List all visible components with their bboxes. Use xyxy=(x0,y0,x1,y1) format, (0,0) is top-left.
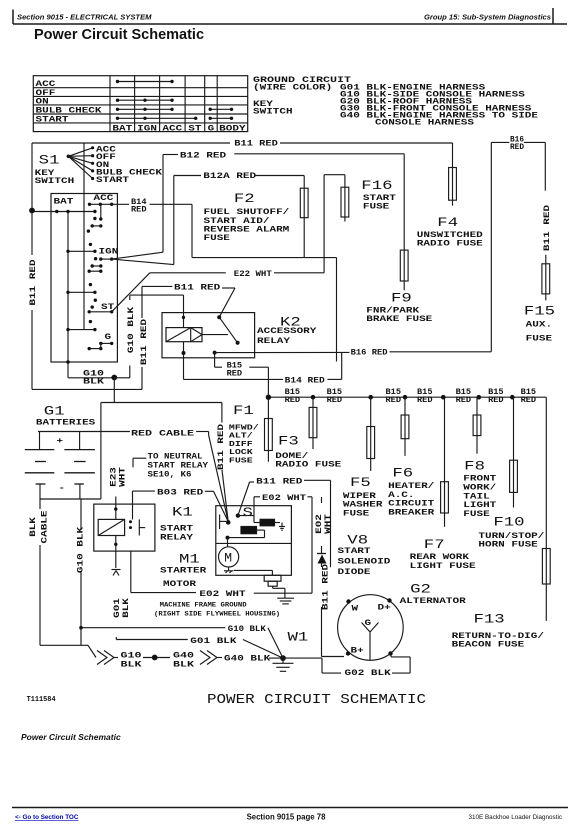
svg-text:AUX.: AUX. xyxy=(526,321,552,330)
starter M1 name xyxy=(160,567,206,589)
diode V8 designator xyxy=(347,533,368,548)
svg-text:SWITCH: SWITCH xyxy=(253,108,293,117)
svg-text:B12 RED: B12 RED xyxy=(180,151,226,160)
label B03 RED xyxy=(157,488,203,497)
wire B15 RED to bus xyxy=(249,367,268,397)
svg-text:DIODE: DIODE xyxy=(338,568,371,577)
drawing number xyxy=(27,696,56,704)
svg-text:BLK: BLK xyxy=(83,378,104,387)
wire F3 feed xyxy=(267,397,269,418)
svg-text:RED: RED xyxy=(456,396,472,405)
svg-text:B11 RED: B11 RED xyxy=(174,283,220,292)
connector below K1 xyxy=(112,570,121,576)
label B14 RED lower xyxy=(285,376,325,385)
label B12 RED xyxy=(180,151,226,160)
svg-text:G01 BLK: G01 BLK xyxy=(190,637,236,646)
svg-text:S: S xyxy=(243,505,254,520)
relay K2 name xyxy=(257,327,317,346)
alternator G2 designator xyxy=(410,582,431,597)
wire E02 diode upper xyxy=(321,497,323,554)
ground circuit legend heading xyxy=(253,76,351,93)
relay K2 coil xyxy=(166,328,202,342)
fuse F9 name xyxy=(366,306,432,324)
wire K2 coil to B14 xyxy=(182,342,186,380)
svg-text:ALT/: ALT/ xyxy=(229,433,253,441)
wire B11 RED top right xyxy=(280,143,453,168)
fuse F3 xyxy=(265,419,273,451)
fuse F16 name xyxy=(363,194,396,212)
wire K1 coil ground xyxy=(114,536,117,569)
key switch position table grid xyxy=(33,76,247,132)
wire B12A RED corner xyxy=(174,176,201,265)
wire motor ground internal xyxy=(234,570,272,575)
label B16 RED xyxy=(351,348,388,357)
wire F10 feed xyxy=(513,397,515,460)
starter terminal bracket xyxy=(220,515,226,530)
svg-text:LOCK: LOCK xyxy=(229,449,254,457)
svg-text:WHT: WHT xyxy=(119,467,128,487)
diode V8 xyxy=(317,554,327,568)
relay K2 designator xyxy=(280,315,301,330)
svg-text:MACHINE FRAME GROUND: MACHINE FRAME GROUND xyxy=(160,602,247,609)
page header rule xyxy=(13,8,567,24)
svg-text:START: START xyxy=(160,525,193,534)
svg-text:BODY: BODY xyxy=(219,124,246,133)
battery plus sign xyxy=(57,437,64,446)
svg-text:B11 RED: B11 RED xyxy=(29,259,38,305)
footer link xyxy=(15,814,79,821)
wire B14 RED lower right xyxy=(328,352,342,379)
footer rule xyxy=(12,807,568,809)
key switch pointer label xyxy=(253,100,293,117)
svg-text:BLK: BLK xyxy=(173,661,194,670)
label G01 BLK riser (vertical) xyxy=(113,598,131,618)
S1 IGN terminal label xyxy=(99,247,119,256)
starter M1 body xyxy=(216,506,292,576)
svg-text:RED CABLE: RED CABLE xyxy=(131,429,194,438)
S1 G terminal label xyxy=(105,333,112,342)
diode V8 name xyxy=(338,547,391,577)
svg-text:RADIO FUSE: RADIO FUSE xyxy=(417,240,483,249)
svg-text:G40: G40 xyxy=(173,652,194,661)
starter S label xyxy=(243,505,254,520)
wire dome fuse feed xyxy=(312,397,314,407)
svg-text:ACC: ACC xyxy=(94,194,114,203)
svg-text:D+: D+ xyxy=(378,604,391,613)
label E02 WHT upper xyxy=(262,494,306,503)
wire G10 BLK frame to W1 xyxy=(268,628,283,658)
wire solenoid to motor xyxy=(226,530,265,540)
wire G10 BLK to K2 coil xyxy=(114,295,183,378)
svg-text:FRONT: FRONT xyxy=(463,475,496,484)
svg-text:RED: RED xyxy=(131,206,147,215)
table ON row contacts xyxy=(116,99,174,102)
svg-text:CABLE: CABLE xyxy=(41,510,50,543)
fuse dome radio xyxy=(309,407,317,437)
svg-text:M1: M1 xyxy=(179,552,200,567)
svg-text:FUSE: FUSE xyxy=(526,335,553,344)
svg-text:Power Circuit Schematic: Power Circuit Schematic xyxy=(34,27,204,43)
wire K1 coil feed xyxy=(114,497,117,520)
wire B03 RED from K1 xyxy=(133,491,155,519)
label G40 BLK connector xyxy=(173,652,194,670)
svg-text:WIPER: WIPER xyxy=(343,492,376,501)
svg-text:WHT: WHT xyxy=(324,514,333,534)
fuse F15 xyxy=(542,264,550,294)
svg-text:RED: RED xyxy=(417,396,433,405)
S1 ACC contact row xyxy=(88,203,114,206)
svg-text:K1: K1 xyxy=(172,505,193,520)
svg-text:E02 WHT: E02 WHT xyxy=(199,590,245,599)
wire B16 RED riser xyxy=(390,142,510,351)
svg-text:START: START xyxy=(36,116,69,125)
label G40 BLK xyxy=(224,655,270,664)
svg-text:CONSOLE HARNESS: CONSOLE HARNESS xyxy=(375,119,474,128)
label B11 RED at K2 xyxy=(174,283,220,292)
svg-text:E02 WHT: E02 WHT xyxy=(262,494,306,503)
wire B15 RED elbow xyxy=(215,353,222,368)
node starter S terminal xyxy=(236,513,240,517)
harness connector right xyxy=(200,651,217,665)
wire RED CABLE to starter xyxy=(196,432,228,522)
fuse F5 xyxy=(367,427,375,459)
solenoid contact block 2 xyxy=(241,526,257,533)
wire F5 feed xyxy=(370,397,372,426)
wire F3 output xyxy=(267,451,269,462)
schematic title xyxy=(207,692,426,708)
svg-text:V8: V8 xyxy=(347,533,368,548)
svg-text:F4: F4 xyxy=(437,215,458,230)
svg-text:RED: RED xyxy=(510,143,524,152)
svg-text:BEACON FUSE: BEACON FUSE xyxy=(452,641,525,650)
wire F5 output xyxy=(370,459,372,471)
key switch S1 designator xyxy=(39,153,60,168)
svg-text:B+: B+ xyxy=(351,647,364,656)
label B15 RED at K2 xyxy=(227,361,243,378)
svg-text:F6: F6 xyxy=(392,466,413,481)
S1 internal feed wire xyxy=(83,143,85,330)
svg-text:G10: G10 xyxy=(121,652,142,661)
fuse F1 designator xyxy=(233,403,254,418)
wire B11 RED top left xyxy=(32,142,230,144)
svg-text:B11 RED: B11 RED xyxy=(322,564,331,610)
svg-text:TO NEUTRAL: TO NEUTRAL xyxy=(148,453,203,462)
svg-text:FUSE: FUSE xyxy=(229,457,253,465)
fuse F6 xyxy=(401,415,409,439)
label RED CABLE xyxy=(131,429,194,438)
wire F6 output xyxy=(404,439,406,456)
S1 position labels xyxy=(96,145,162,185)
svg-text:RED: RED xyxy=(285,396,301,405)
wire F7 output xyxy=(444,513,446,527)
fuse F9 designator xyxy=(391,291,412,306)
fuse F13 name xyxy=(452,632,545,650)
S1 contact chain lower xyxy=(66,291,97,309)
wire B14 RED to K2 xyxy=(150,204,337,361)
fuse F10 designator xyxy=(493,515,524,530)
svg-text:B12A RED: B12A RED xyxy=(203,172,256,181)
fuse F2 designator xyxy=(234,191,255,206)
wire F6 feed xyxy=(404,397,406,415)
svg-text:ON: ON xyxy=(36,98,49,107)
svg-text:<- Go to Section TOC: <- Go to Section TOC xyxy=(15,814,79,821)
svg-text:RADIO FUSE: RADIO FUSE xyxy=(275,461,341,470)
label B11 RED starter xyxy=(256,478,302,487)
fuse F4 name xyxy=(417,231,483,249)
table row labels xyxy=(36,80,102,125)
svg-text:SWITCH: SWITCH xyxy=(35,177,75,186)
footer center xyxy=(247,813,327,822)
header left text xyxy=(17,13,152,22)
svg-text:BATTERIES: BATTERIES xyxy=(36,419,96,428)
fuse F5 name xyxy=(343,492,383,519)
wire F8 feed xyxy=(476,397,478,415)
label B16 RED top xyxy=(510,136,524,152)
svg-text:BULB CHECK: BULB CHECK xyxy=(36,107,102,116)
B15 bus junctions xyxy=(266,395,515,400)
fuse F5 designator xyxy=(350,475,371,490)
S1 IGN to B12 link xyxy=(112,252,163,259)
wire B14 RED lower xyxy=(184,378,284,380)
wire F7 feed xyxy=(444,397,446,482)
battery minus sign xyxy=(59,484,66,493)
svg-text:RELAY: RELAY xyxy=(257,337,290,346)
fuse F15 name xyxy=(526,321,553,344)
motor M symbol xyxy=(219,538,239,567)
svg-text:STARTER: STARTER xyxy=(160,567,206,576)
svg-text:BAT: BAT xyxy=(54,198,74,207)
svg-text:B14 RED: B14 RED xyxy=(285,376,325,385)
wire B11 RED into K2 contact xyxy=(219,288,235,317)
fuse F3 name xyxy=(275,452,341,470)
wire B12 RED corner xyxy=(163,155,178,253)
alternator terminals xyxy=(346,598,393,655)
svg-text:G02 BLK: G02 BLK xyxy=(345,669,391,678)
wire F16 output xyxy=(344,217,346,222)
svg-text:G: G xyxy=(208,124,215,133)
S1 contact chain mid xyxy=(88,257,114,286)
wire G10 BLK from S1 xyxy=(68,362,113,378)
svg-text:BRAKE FUSE: BRAKE FUSE xyxy=(366,315,432,324)
relay K2 body xyxy=(162,313,255,358)
label B11 RED F1 feed (vertical) xyxy=(217,424,226,470)
wire E23 WHT stub xyxy=(133,458,146,467)
svg-text:WORK/: WORK/ xyxy=(463,484,496,493)
svg-text:F9: F9 xyxy=(391,291,412,306)
battery cell plates xyxy=(25,450,95,484)
wire B16 RED to F15 xyxy=(524,142,545,190)
node W1 xyxy=(280,655,286,661)
ground wire color list xyxy=(340,84,538,128)
note to neutral start relay xyxy=(148,453,209,480)
wire G10 BLK battery drop xyxy=(113,378,115,403)
wire F2 output xyxy=(303,218,305,258)
svg-text:B16 RED: B16 RED xyxy=(351,348,388,357)
battery G1 designator xyxy=(44,404,65,419)
svg-text:RED: RED xyxy=(386,396,402,405)
alternator terminal labels xyxy=(351,604,391,656)
svg-text:TURN/STOP/: TURN/STOP/ xyxy=(478,532,544,541)
S1 contact chain bottom xyxy=(66,320,96,331)
svg-text:Section 9015 page 78: Section 9015 page 78 xyxy=(247,813,327,822)
svg-text:T111584: T111584 xyxy=(27,696,56,704)
svg-text:DOME/: DOME/ xyxy=(275,452,308,461)
svg-text:RED: RED xyxy=(488,396,504,405)
motor frame mount xyxy=(224,567,234,573)
starter ground connector xyxy=(264,575,281,586)
wire B11 RED from S terminal xyxy=(238,482,254,516)
node G10 ground junction xyxy=(111,375,117,381)
svg-text:-: - xyxy=(59,484,66,493)
fuse F8 name xyxy=(463,475,496,519)
svg-text:F2: F2 xyxy=(234,191,255,206)
label G10 BLK battery (vertical) xyxy=(77,527,86,573)
svg-text:+: + xyxy=(57,437,64,446)
svg-text:HORN FUSE: HORN FUSE xyxy=(478,541,538,550)
wire G10 BLK battery to ground xyxy=(80,499,82,645)
svg-text:BREAKER: BREAKER xyxy=(388,508,434,517)
svg-text:RED: RED xyxy=(521,396,537,405)
node starter main terminal xyxy=(226,520,231,525)
label B11 RED riser (vertical) xyxy=(140,319,149,365)
B15 RED bus labels xyxy=(285,388,537,405)
S1 ACC terminal label xyxy=(94,194,114,203)
svg-text:Group 15: Sub-System Diagnosti: Group 15: Sub-System Diagnostics xyxy=(424,13,551,22)
fuse F3 designator xyxy=(278,434,299,449)
label E23 WHT (vertical) xyxy=(110,467,128,487)
svg-text:REAR WORK: REAR WORK xyxy=(410,553,470,562)
S1 IGN contact row xyxy=(66,250,96,253)
label G10 BLK frame xyxy=(228,625,266,634)
svg-text:S1: S1 xyxy=(39,153,60,168)
svg-text:G1: G1 xyxy=(44,404,65,419)
svg-text:BLK: BLK xyxy=(122,598,131,618)
svg-text:G40 BLK: G40 BLK xyxy=(224,655,270,664)
fuse F13 designator xyxy=(474,612,505,627)
alternator G2 name xyxy=(400,597,466,606)
S1 BAT terminal label xyxy=(54,198,74,207)
svg-text:G10 BLK: G10 BLK xyxy=(77,527,86,573)
svg-text:LIGHT FUSE: LIGHT FUSE xyxy=(410,562,476,571)
ground symbol W1 xyxy=(273,658,294,671)
alternator G2 circle xyxy=(338,595,404,661)
label BLK CABLE (vertical) xyxy=(29,510,50,543)
svg-text:F1: F1 xyxy=(233,403,254,418)
header right text xyxy=(424,13,551,22)
wire B11 RED to alternator xyxy=(322,607,345,657)
svg-text:MOTOR: MOTOR xyxy=(163,580,196,589)
svg-text:B03 RED: B03 RED xyxy=(157,488,203,497)
svg-text:BLK: BLK xyxy=(121,661,142,670)
fuse F16 designator xyxy=(361,178,392,193)
wire to frame ground xyxy=(273,586,285,598)
solenoid contact block 1 xyxy=(260,519,275,526)
ground W1 designator xyxy=(288,630,309,645)
svg-text:ACC: ACC xyxy=(162,124,182,133)
svg-text:RED: RED xyxy=(227,369,243,378)
relay K2 contact arm xyxy=(217,315,239,345)
svg-text:G01: G01 xyxy=(113,598,122,618)
wire K2 coil feed xyxy=(182,295,185,327)
svg-text:A.C.: A.C. xyxy=(388,491,414,500)
svg-text:E22 WHT: E22 WHT xyxy=(234,270,272,279)
svg-text:IGN: IGN xyxy=(137,124,157,133)
node G10 frame junction xyxy=(79,626,83,630)
label G01 BLK xyxy=(190,637,236,646)
svg-text:F16: F16 xyxy=(361,178,392,193)
svg-text:BAT: BAT xyxy=(112,124,132,133)
svg-text:E02: E02 xyxy=(315,514,324,534)
S1 ST to E22 link xyxy=(112,273,150,312)
wire BLK CABLE to frame ground xyxy=(40,499,96,658)
wire F15 feed xyxy=(545,255,547,264)
fuse F2 name xyxy=(204,208,290,243)
wire F9 output xyxy=(403,281,405,290)
table column labels xyxy=(112,124,245,133)
fuse F10 name xyxy=(478,532,544,550)
svg-text:FUSE: FUSE xyxy=(363,203,390,212)
svg-text:B11 RED: B11 RED xyxy=(234,139,278,148)
wire B03 RED to starter xyxy=(205,491,228,521)
svg-text:START RELAY: START RELAY xyxy=(148,462,209,471)
svg-text:G2: G2 xyxy=(410,582,431,597)
battery positive bus xyxy=(38,432,130,450)
wire E02 WHT lower right xyxy=(254,592,312,594)
svg-text:F3: F3 xyxy=(278,434,299,449)
svg-text:FNR/PARK: FNR/PARK xyxy=(366,306,419,315)
wire battery positive tap xyxy=(101,402,222,404)
fuse F16 xyxy=(341,187,349,217)
svg-text:UNSWITCHED: UNSWITCHED xyxy=(417,231,483,240)
fuse F15 designator xyxy=(524,304,555,319)
svg-text:F13: F13 xyxy=(474,612,505,627)
svg-text:310E Backhoe Loader Diagnostic: 310E Backhoe Loader Diagnostic xyxy=(469,814,562,821)
svg-text:E23: E23 xyxy=(110,467,119,487)
svg-text:FUSE: FUSE xyxy=(343,510,370,519)
wire F8 output xyxy=(476,436,478,454)
fuse F2 xyxy=(300,188,308,218)
node K2 output pin xyxy=(213,351,217,355)
fuse F6 name xyxy=(388,482,434,517)
wire B15 bus xyxy=(268,396,546,398)
svg-text:POWER CIRCUIT SCHEMATIC: POWER CIRCUIT SCHEMATIC xyxy=(207,692,426,708)
fuse F8 designator xyxy=(464,459,485,474)
relay K1 contact xyxy=(129,519,145,535)
svg-text:(WIRE COLOR): (WIRE COLOR) xyxy=(253,84,332,93)
wire B11 RED drop xyxy=(304,480,331,567)
wire G01 BLK to W1 xyxy=(243,640,283,659)
relay K2 coil common xyxy=(202,334,228,336)
svg-text:START: START xyxy=(338,547,371,556)
wire B11 RED riser to K2 xyxy=(142,286,172,389)
wire E22 WHT left xyxy=(150,272,226,274)
svg-text:W: W xyxy=(352,605,359,614)
relay K1 name xyxy=(160,525,193,543)
label B11 RED diode (vertical) xyxy=(322,564,331,610)
wire G40 BLK to W1 xyxy=(217,657,283,660)
label B11 RED F15 (vertical) xyxy=(543,205,552,251)
caption xyxy=(21,732,121,742)
svg-text:(RIGHT SIDE FLYWHEEL HOUSING): (RIGHT SIDE FLYWHEEL HOUSING) xyxy=(154,611,280,618)
fuse F6 designator xyxy=(392,466,413,481)
S1 ST contact row xyxy=(88,310,114,313)
solenoid coil ground xyxy=(275,523,285,531)
svg-text:DIFF: DIFF xyxy=(229,441,253,449)
wire F15 output xyxy=(545,294,547,301)
S1 ground junction xyxy=(66,360,70,364)
svg-text:SOLENOID: SOLENOID xyxy=(338,558,391,567)
fuse F13 xyxy=(542,549,550,585)
